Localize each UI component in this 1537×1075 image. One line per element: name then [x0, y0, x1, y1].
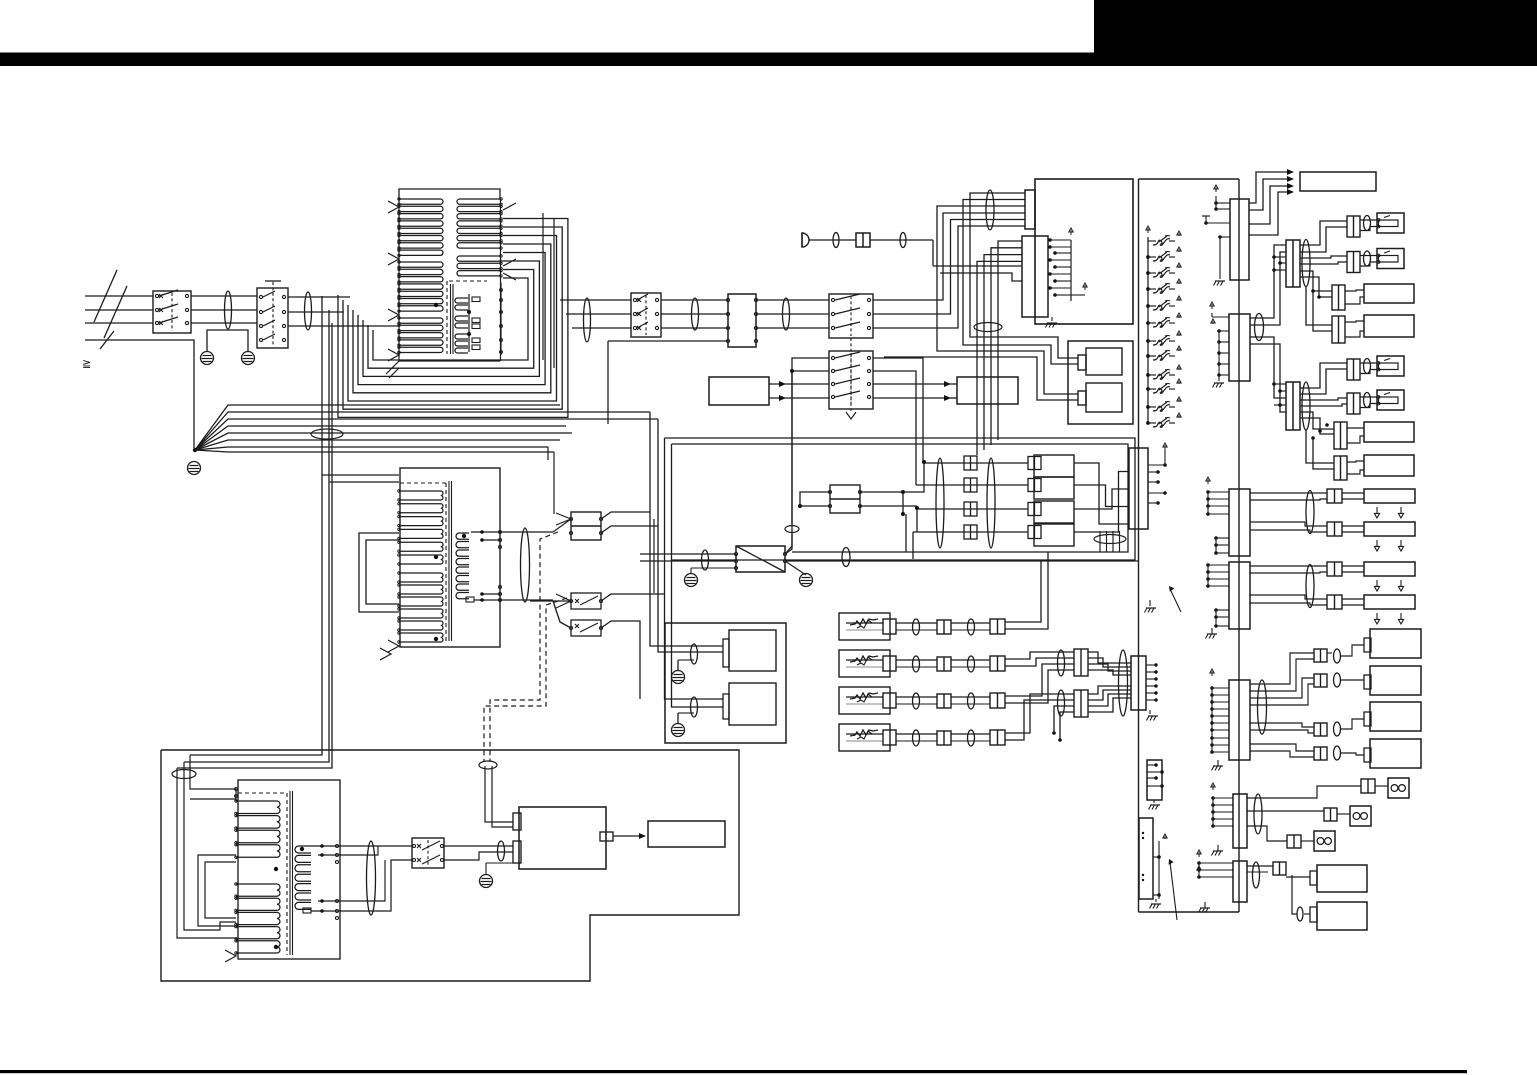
mic row 4 connector a: [883, 730, 896, 745]
earth ground PSU: [480, 863, 514, 888]
speaker pair B2 connector: [1327, 595, 1342, 609]
wire fan to CN6: [548, 447, 554, 514]
cable clamp on riser pair: [311, 429, 343, 439]
speaker connector G7: [1334, 422, 1347, 449]
cable tie CN9: [1302, 240, 1310, 287]
ferrite bead F4: [783, 298, 790, 330]
ferrite bead F1: [225, 291, 232, 329]
wires device blocks to bus connector: [1074, 463, 1129, 532]
mic row 3 scribble: [850, 693, 878, 702]
ferrite bead F2: [305, 292, 312, 330]
transformer T1 primary winding left group2: [398, 261, 443, 313]
T2 left loop wires: [359, 533, 399, 612]
remote pair into PSU: [485, 766, 513, 827]
transformer T1 right rail: [500, 199, 502, 361]
CN3 pin stubs and test rail: [1048, 228, 1087, 301]
speaker B2 wires: [1250, 595, 1404, 624]
module box B: [957, 377, 1018, 404]
T3 core dashed: [238, 793, 287, 955]
harness stacks to CN7: [1088, 652, 1131, 712]
cable tie T3 out: [367, 841, 376, 915]
jack 1 ferrite: [1364, 216, 1371, 231]
jack 5 box: [1377, 356, 1404, 376]
RCA G4 connector: [1314, 747, 1327, 760]
mic row 4 wire mid2: [951, 734, 990, 741]
switch S2 mains relay: [257, 281, 288, 348]
mic row 3 wires: [846, 697, 883, 704]
relay dashed actuator link: [846, 338, 856, 419]
wire T2 out bottom: [500, 599, 553, 601]
connector CNE rail: [1197, 850, 1233, 879]
wire AC line 3: [85, 322, 153, 324]
cable tie U2 input: [702, 550, 709, 570]
connector CN6 pair: [570, 512, 603, 540]
transformer T2 secondary: [456, 533, 469, 599]
connector CNA: [1229, 489, 1250, 556]
monitor out 1 connector: [1273, 862, 1286, 875]
risers through clamp CN5: [1100, 531, 1120, 552]
connector CN1: [726, 294, 757, 347]
T2 bottom chevron: [380, 640, 399, 660]
wire bundle into CN2: [0, 0, 1, 1]
footer rule: [0, 1070, 1467, 1073]
speaker wires G3: [1345, 290, 1364, 304]
connector CN3 on U1: [1022, 236, 1048, 317]
wires CN6 to risers: [601, 512, 658, 533]
T3 core lines: [290, 791, 293, 955]
daughter board IC1: [1078, 348, 1122, 375]
jack 2 box: [1377, 249, 1404, 269]
CN7 stubs right: [1146, 663, 1158, 701]
connector CNB: [1229, 562, 1250, 629]
wire S5 left feed: [790, 358, 829, 373]
chassis ground CNF: [1149, 800, 1161, 810]
amp2 input wires: [678, 699, 723, 707]
transformer T3 enclosure: [238, 780, 340, 959]
merge chevrons T2: [553, 513, 571, 608]
cable tie CN10: [1255, 314, 1264, 341]
ferrite on horn wire 2: [900, 233, 906, 248]
switch S5 relay bank: [829, 351, 873, 409]
ground link under F1: [207, 330, 248, 351]
speaker pair A2 box: [1364, 522, 1415, 536]
transformer T2 primary: [398, 490, 443, 565]
callout arrow 1: [1169, 586, 1181, 612]
connector CND rail: [1211, 783, 1233, 828]
wire S2 to transformer: [288, 297, 399, 326]
cable tie PSU in: [498, 841, 505, 861]
device blocks column: [1028, 455, 1074, 546]
jack group wires bottom: [1300, 363, 1347, 469]
earth stub U2: [691, 568, 736, 574]
header band: [0, 53, 1537, 67]
RCA G4 wires: [1250, 744, 1364, 757]
amp1 input wires: [678, 646, 723, 652]
microphone horn: [802, 233, 809, 247]
option switch 7: [1146, 331, 1181, 345]
transformer T1 secondary winding right group2: [457, 255, 502, 277]
chassis ground CN7 top: [1145, 600, 1157, 613]
speaker box G3: [1364, 284, 1414, 303]
8ohm out 3 wires: [1247, 826, 1314, 841]
transformer T3 primary: [235, 800, 280, 859]
mic row 4 ferrite b: [968, 730, 975, 746]
wire bundle into CN3: [933, 241, 1022, 455]
earth ground G3: [188, 462, 201, 475]
monitor out 1 wires: [1247, 866, 1310, 877]
cable tie T2 output: [521, 528, 530, 602]
RCA G3 connector: [1314, 723, 1327, 736]
transformer T1 tertiary winding: [455, 298, 468, 310]
switch S8 PSU: [412, 838, 444, 868]
speaker connector G8: [1334, 456, 1347, 480]
callout arrow 2: [1169, 859, 1177, 920]
mic row 2 wire mid2: [951, 660, 990, 667]
cable tie E2: [1297, 907, 1303, 921]
cable tie stack upper: [1058, 650, 1065, 676]
mic row 4 ferrite a: [913, 730, 920, 746]
cable tie amp1: [691, 644, 698, 664]
mic row 3 wire mid2: [951, 697, 990, 704]
transformer T1 tertiary winding g3: [455, 334, 468, 353]
wire S4 risers to main PCB: [873, 213, 1025, 328]
speaker box G7: [1364, 422, 1414, 442]
option switch 5: [1146, 296, 1181, 310]
CN5 right test stubs: [1148, 443, 1167, 505]
module box A: [709, 377, 769, 405]
earth ground U2 in: [685, 574, 698, 587]
transformer T1 left rail: [398, 199, 400, 361]
mic row 1 connector a: [883, 619, 896, 634]
jack 5 ferrite: [1364, 359, 1371, 374]
transformer T3 primary g2: [235, 883, 280, 954]
mic row 3 connector b: [937, 694, 951, 708]
transformer T1 core dashed: [447, 281, 487, 354]
speaker B1 wires: [1250, 566, 1404, 591]
RCA G1 connector: [1314, 649, 1327, 662]
expansion slot box: [1139, 818, 1153, 899]
transformer T1 secondary winding right: [457, 198, 502, 250]
cable tie CN11: [1302, 382, 1310, 430]
cable clamp T3 feeds: [172, 770, 196, 779]
jack 5 connector: [1347, 359, 1360, 380]
transformer T1 core lines: [451, 284, 454, 354]
speaker pair B2 box: [1364, 595, 1415, 609]
cable tie jack rows 2: [987, 458, 995, 548]
RCA G3 ferrite: [1334, 722, 1341, 736]
tap chevrons T1 left: [388, 201, 399, 361]
T2 secondary outputs: [471, 530, 502, 602]
mic row 3 connector c: [990, 693, 1005, 708]
T3 left loop wires: [198, 855, 236, 926]
stack connector lower: [1074, 690, 1088, 717]
daughter board frame: [1068, 341, 1133, 424]
shield run inner top: [672, 444, 1129, 552]
mic row 1 box: [839, 613, 890, 640]
cable tie stack lower: [1058, 690, 1065, 716]
mic row 2 connector c: [990, 656, 1005, 671]
speaker pair B1 connector: [1327, 562, 1342, 576]
switch S4 relay: [829, 294, 873, 338]
cable tie A: [1306, 491, 1314, 534]
mic row 3 wire mid: [896, 697, 937, 704]
PSU output tab: [600, 832, 613, 841]
earth ground amp2: [672, 713, 695, 737]
8ohm out 1 connector: [1361, 779, 1375, 793]
transformer T1 primary winding left: [398, 198, 443, 257]
cable tie B: [1306, 565, 1314, 608]
mic row 3 ferrite a: [913, 693, 920, 709]
wire S3 to CN1: [661, 300, 728, 328]
speaker wires G4: [1345, 321, 1364, 337]
T3 feed risers: [177, 755, 236, 938]
speaker A2 wires: [1250, 522, 1404, 551]
chassis ground CNC: [1212, 760, 1224, 771]
earth ground amp1: [672, 660, 695, 684]
T2 secondary fuse: [466, 597, 474, 602]
chassis ground CN7 bottom: [1147, 710, 1159, 721]
cable clamp remote pair: [479, 761, 497, 769]
thermal fuses on T1 tertiary: [472, 297, 480, 350]
chassis ground expansion: [1150, 899, 1162, 909]
T2 core lines: [449, 481, 452, 641]
riser CN10 to CN9: [1250, 245, 1286, 325]
jack 1 connector: [1347, 216, 1360, 237]
T2 winding dot b: [434, 637, 438, 641]
wires into U2: [640, 554, 736, 561]
mic rows harness to stacks: [1005, 552, 1074, 742]
chassis ground CN8: [1214, 275, 1226, 286]
cable tie before CN7: [1119, 650, 1128, 716]
wire horn chain: [809, 240, 933, 266]
option switch 3: [1146, 263, 1181, 277]
DC converter U2: [735, 546, 787, 572]
wires into T2 top: [322, 475, 399, 482]
wires S8 to PSU module: [444, 846, 513, 860]
T3 secondary outputs: [311, 844, 339, 919]
wire loop bundle around T1: [338, 219, 568, 418]
panel frame right rail: [1238, 179, 1240, 912]
transformer T1 tertiary winding g2: [455, 316, 468, 328]
cable tie jack rows 1: [936, 458, 944, 548]
device row wires: [913, 463, 1028, 532]
option switch 1: [1148, 231, 1181, 245]
mic row 1 wire mid: [896, 623, 937, 630]
speaker box G8: [1364, 455, 1414, 476]
wire S5 outputs to module B: [873, 381, 957, 401]
RCA G3 box: [1364, 702, 1421, 731]
wires S6 S7 right: [601, 594, 664, 699]
transformer T3 secondary: [295, 846, 311, 909]
option switch 11: [1146, 397, 1181, 411]
mic row 4 connector c: [990, 730, 1005, 745]
RCA G4 ferrite: [1334, 746, 1341, 760]
wires CN10 right: [1250, 337, 1286, 412]
transformer T1 primary winding left group3: [398, 317, 443, 354]
speaker box G4: [1364, 315, 1414, 337]
mic row 2 ferrite b: [968, 656, 975, 672]
8ohm out 2 wires: [1247, 811, 1350, 814]
mic row 4 connector b: [937, 731, 951, 745]
wire T1 top risers: [543, 213, 554, 368]
monitor out 2 box: [1310, 902, 1367, 930]
jack 6 box: [1377, 390, 1404, 410]
T3 secondary dot: [300, 847, 304, 851]
connector CNC: [1229, 680, 1250, 760]
header block top-right: [1094, 0, 1537, 53]
mic row 2 scribble: [850, 656, 878, 665]
RCA G4 box: [1364, 739, 1421, 768]
transformer T1 bottom bar: [399, 360, 500, 362]
switch S7: [570, 620, 603, 636]
RCA G1 wires: [1250, 645, 1364, 691]
jack 6 ferrite: [1364, 393, 1371, 408]
mic row 4 wires: [846, 734, 883, 741]
T2 core dashed: [400, 483, 446, 641]
jack 2 wires: [1360, 256, 1377, 267]
cable tie E: [1253, 862, 1260, 888]
RCA G2 ferrite: [1334, 673, 1341, 687]
8ohm out 2 box: [1350, 806, 1371, 826]
switch S3 secondary: [631, 293, 661, 337]
RCA G1 ferrite: [1334, 649, 1341, 663]
T3 feed wire 2: [190, 798, 236, 800]
connector CN10: [1229, 314, 1250, 381]
earth ground G1: [201, 352, 214, 365]
connector CND: [1233, 794, 1247, 848]
RCA G2 connector: [1314, 674, 1327, 687]
mic row 1 scribble: [850, 619, 878, 628]
option switch 8: [1146, 346, 1181, 360]
mic row 2 ferrite a: [913, 656, 920, 672]
amp module 1: [723, 630, 776, 671]
chassis ground CNE: [1199, 902, 1211, 913]
mic row 2 wires: [846, 660, 883, 667]
chassis ground CN10: [1213, 375, 1225, 388]
connector CN8: [1230, 199, 1249, 280]
connector CNE: [1233, 861, 1247, 902]
transformer T1 right rail lower: [500, 283, 503, 355]
connector CN2 on U1: [1025, 190, 1035, 229]
panel frame left rail: [1138, 179, 1140, 912]
connector CNF: [1147, 760, 1162, 800]
8ohm out 3 connector: [1287, 835, 1301, 848]
mic row 1 connector c: [990, 619, 1005, 634]
mic row 2 connector b: [937, 657, 951, 671]
CN8 left accessories: [1202, 185, 1230, 275]
wire S3 below run: [608, 341, 728, 424]
slash marks on AC lines: [94, 270, 127, 349]
winding dot T1: [434, 303, 438, 307]
T3 secondary fuse: [303, 908, 311, 913]
jack 2 ferrite: [1364, 251, 1371, 266]
control box: [1300, 172, 1376, 191]
option switch 9: [1146, 365, 1181, 379]
cable tie amp2: [691, 697, 698, 717]
speaker pair A2 connector: [1327, 522, 1342, 536]
connector horn CN: [856, 233, 870, 247]
wire S1 to ferrite: [191, 296, 257, 323]
speaker pair A1 box: [1364, 489, 1415, 503]
label page-number rotated: [82, 358, 91, 370]
standby PSU module: [519, 807, 606, 869]
mic row 2 box: [839, 650, 890, 677]
wire CN1 to S4: [756, 300, 829, 328]
jack 6 connector: [1347, 393, 1360, 414]
chassis ground CNB: [1206, 628, 1218, 639]
connector CNA rail: [1206, 477, 1229, 555]
RCA G1 box: [1364, 629, 1421, 658]
connector CNC rail: [1210, 669, 1229, 754]
daughter board IC2: [1078, 383, 1122, 412]
U2 output wires: [785, 371, 1139, 575]
stack connector upper: [1074, 649, 1088, 676]
mic row 1 wire mid2: [951, 623, 990, 630]
earth ground U2 out: [800, 574, 813, 587]
wire S5 rows to jack field: [873, 358, 923, 485]
cable tie on PA bus: [842, 548, 850, 567]
transformer T2 enclosure: [400, 468, 500, 647]
mic row 4 scribble: [850, 730, 878, 739]
T3 out wires to S8: [337, 846, 412, 911]
speaker wires G8: [1347, 461, 1364, 474]
jack 1 wires: [1360, 220, 1377, 231]
option switch 12: [1146, 413, 1181, 427]
panel frame top rail: [1139, 178, 1240, 180]
mic row 4 box: [839, 724, 890, 751]
fan-out node from mains earth: [193, 405, 658, 452]
wire T2 out top: [500, 531, 553, 533]
speaker pair A1 connector: [1327, 489, 1342, 503]
8ohm out 1 box: [1388, 778, 1409, 798]
RCA G2 wires: [1250, 678, 1364, 705]
main PCB block U1: [1035, 179, 1133, 324]
RCA G3 wires: [1250, 719, 1364, 733]
connector CNB rail: [1206, 563, 1229, 628]
wires CN8 to control box: [1249, 169, 1294, 235]
switch S6: [570, 593, 603, 609]
wire T1 out to S3: [560, 300, 631, 328]
mic row 2 connector a: [883, 656, 896, 671]
connector CN4 dual: [829, 485, 862, 513]
CNE extra arrow: [1197, 866, 1201, 871]
PSU input tab 2: [513, 841, 521, 863]
speaker connector G3: [1332, 285, 1345, 310]
PSU output arrow: [613, 833, 646, 839]
mic row 3 ferrite b: [968, 693, 975, 709]
transformer T2 primary g2: [398, 572, 443, 643]
monitor out 2 wires: [1292, 875, 1310, 914]
bus connector CN5: [1129, 448, 1148, 529]
cable tie before CN2: [986, 190, 994, 230]
mic row 1 connector b: [937, 620, 951, 634]
cable tie D: [1254, 794, 1262, 834]
mic row 2 wire mid: [896, 660, 937, 667]
speaker connector G4: [1332, 316, 1345, 343]
option switch 2: [1146, 247, 1181, 261]
mic row 3 box: [839, 687, 890, 714]
row junction verticals: [901, 460, 926, 559]
switch S1 mains: [153, 290, 191, 333]
ferrite on horn wire: [833, 233, 839, 248]
wire AC neutral run: [85, 340, 194, 448]
dashed remote wire 1: [490, 532, 558, 762]
option switch 10: [1146, 379, 1181, 393]
CNF rail: [1147, 763, 1164, 788]
CN10 left accessories: [1210, 302, 1229, 377]
speaker pair B1 box: [1364, 562, 1415, 576]
stack connector CN11: [1286, 382, 1300, 430]
